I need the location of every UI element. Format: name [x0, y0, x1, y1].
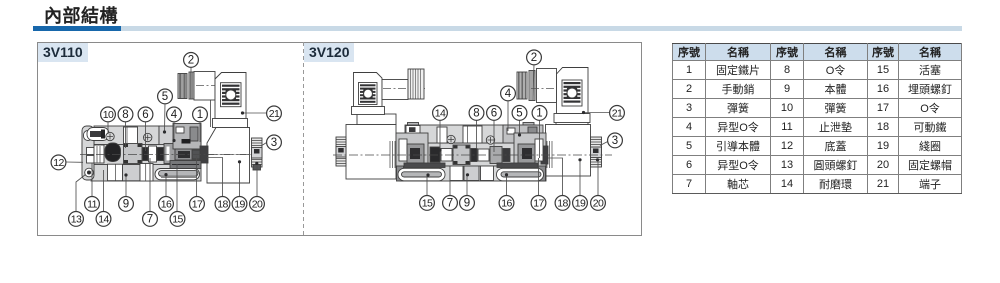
callout 18 (3V110) — [215, 197, 230, 212]
callout 20 (3V110) — [250, 197, 265, 212]
svg-text:19: 19 — [234, 199, 245, 211]
leader 5 — [518, 120, 521, 137]
callout 1 (3V110) — [193, 107, 208, 122]
svg-text:1: 1 — [197, 109, 203, 121]
leader 21 — [241, 111, 267, 114]
bottom port white — [450, 166, 463, 181]
leader 1 — [539, 120, 541, 158]
left solenoid coil — [346, 125, 396, 180]
callout 3 (3V120) — [608, 133, 623, 148]
title underline dark blue — [33, 26, 121, 31]
svg-text:5: 5 — [516, 108, 522, 120]
svg-text:6: 6 — [491, 108, 497, 120]
leader 15 — [176, 164, 178, 211]
screw 6 — [144, 133, 152, 141]
bottom mid block — [464, 166, 479, 181]
valve centerline — [333, 154, 612, 156]
leader 18 — [207, 158, 223, 197]
svg-text:18: 18 — [557, 198, 568, 210]
connector window — [221, 83, 242, 107]
callout 2 (3V110) — [184, 53, 199, 68]
svg-text:18: 18 — [217, 199, 228, 211]
svg-text:7: 7 — [147, 214, 153, 226]
svg-text:17: 17 — [533, 198, 544, 210]
leader 5 — [163, 103, 166, 133]
stem centerline — [196, 85, 224, 87]
callout 19 (3V120) — [573, 196, 588, 211]
leader 7 — [149, 158, 151, 211]
callout 6 (3V110) — [138, 107, 153, 122]
callout 12 (3V110) — [51, 155, 66, 170]
bottom port white 1 — [108, 164, 123, 181]
svg-text:14: 14 — [435, 108, 446, 120]
leader 9 — [124, 173, 127, 196]
svg-text:4: 4 — [505, 88, 512, 100]
pilot channel capsule — [155, 169, 200, 180]
leader 8 — [476, 120, 478, 148]
leader 6 — [493, 120, 495, 152]
manual knob 2 — [517, 71, 535, 101]
right connector window — [562, 80, 582, 106]
svg-text:14: 14 — [98, 214, 109, 226]
right connector 21 body — [557, 68, 589, 114]
right armature stripes — [547, 141, 552, 168]
callout 1 (3V120) — [532, 106, 547, 121]
top tabs — [408, 123, 419, 126]
callout 10 (3V110) — [101, 107, 116, 122]
callout 5 (3V110) — [158, 89, 173, 104]
leader 15 — [426, 173, 429, 195]
end cap notch 1 — [87, 148, 95, 155]
end cap 12 — [82, 126, 94, 180]
callout 3 (3V110) — [267, 135, 282, 150]
svg-text:13: 13 — [71, 214, 82, 226]
right coil foot — [539, 166, 546, 181]
screw left — [447, 135, 455, 143]
top port white — [124, 127, 138, 145]
leader 19 — [578, 158, 581, 195]
leader 21 — [582, 111, 610, 114]
svg-text:17: 17 — [192, 199, 203, 211]
parts table — [672, 43, 962, 194]
svg-text:10: 10 — [103, 109, 114, 121]
leader 17 — [538, 158, 540, 195]
top port white 2 — [437, 127, 447, 143]
mount hole 13 — [85, 168, 94, 177]
svg-text:15: 15 — [172, 214, 183, 226]
leader 2 — [533, 64, 534, 100]
leader 3 — [261, 143, 267, 147]
dashed separator — [303, 42, 304, 236]
leader 1 — [199, 121, 201, 142]
spool details — [430, 145, 510, 165]
right piston housing — [514, 133, 548, 167]
svg-text:4: 4 — [171, 109, 178, 121]
svg-text:7: 7 — [447, 198, 453, 210]
leader 19 — [238, 160, 241, 196]
leader 4 — [507, 100, 509, 131]
svg-text:9: 9 — [464, 198, 470, 210]
callout 18 (3V120) — [555, 196, 570, 211]
end cap notch 2 — [87, 156, 95, 164]
valve centerline — [80, 154, 252, 156]
bottom port white 2 — [140, 164, 153, 182]
svg-text:5: 5 — [162, 91, 168, 103]
coil centerline — [205, 154, 252, 156]
callout 4 (3V120) — [501, 86, 516, 101]
svg-text:1: 1 — [536, 108, 542, 120]
svg-text:6: 6 — [142, 109, 148, 121]
callout 17 (3V120) — [531, 196, 546, 211]
svg-text:19: 19 — [575, 198, 586, 210]
callout 2 (3V120) — [527, 50, 542, 65]
right armature bar — [497, 163, 538, 168]
leader 4 — [172, 121, 175, 142]
svg-text:2: 2 — [531, 52, 537, 64]
leader 2 — [190, 67, 192, 99]
callout 21 (3V110) — [267, 106, 282, 121]
callout 5 (3V120) — [512, 106, 527, 121]
leader 7 — [449, 170, 451, 195]
left armature stripes — [390, 141, 395, 168]
left armature bar — [404, 163, 445, 168]
left pilot slot — [406, 126, 420, 134]
callout 16 (3V110) — [159, 197, 174, 212]
right capsule channel — [497, 168, 544, 181]
panel label 3V120 — [304, 43, 354, 62]
end cap slot — [84, 131, 93, 141]
solenoid coil body — [207, 128, 250, 184]
manual pin 10 capsule — [87, 128, 109, 141]
right end nut — [591, 137, 602, 167]
connector 21 body — [215, 73, 246, 119]
spool seal blob 11 — [105, 143, 121, 162]
bottom mid block 9 — [123, 165, 141, 181]
callout 14 (3V120) — [433, 106, 448, 121]
svg-text:3: 3 — [271, 137, 277, 149]
knob stem housing — [194, 72, 215, 101]
callout 20 (3V120) — [591, 196, 606, 211]
body top plate — [405, 125, 536, 143]
body top plate — [94, 126, 159, 145]
leader 16 — [164, 173, 167, 196]
fixing nut 20 — [252, 138, 263, 170]
callout 8 (3V120) — [469, 106, 484, 121]
svg-text:21: 21 — [269, 108, 280, 120]
spool dark seal 2 — [143, 148, 149, 161]
svg-text:16: 16 — [501, 198, 512, 210]
screw right — [486, 136, 494, 144]
manual knob 2 — [178, 72, 194, 99]
svg-text:11: 11 — [87, 199, 97, 211]
callout 21 (3V120) — [610, 106, 625, 121]
top port white — [463, 126, 482, 143]
left coil foot — [397, 166, 404, 181]
callout 17 (3V110) — [190, 197, 205, 212]
svg-text:12: 12 — [53, 157, 64, 169]
callout 11 (3V110) — [85, 197, 100, 212]
callout 4 (3V110) — [167, 107, 182, 122]
callout 9 (3V110) — [119, 197, 134, 212]
screw 8 — [106, 132, 114, 140]
left connector stem — [382, 80, 408, 100]
left coil flange — [357, 114, 396, 125]
pilot lower strip — [170, 161, 201, 169]
body mid block — [396, 143, 546, 166]
leader 12 — [66, 161, 83, 163]
callout 19 (3V110) — [232, 197, 247, 212]
svg-text:20: 20 — [252, 199, 263, 211]
callout 6 (3V120) — [487, 106, 502, 121]
right stem centerline — [531, 88, 560, 90]
spool white gap left — [94, 145, 104, 163]
leader 9 — [466, 173, 469, 195]
leader 14 — [103, 170, 105, 211]
leader 10 — [107, 121, 109, 134]
svg-text:3: 3 — [612, 135, 618, 147]
leader 6 — [145, 121, 147, 151]
left cable gland knurl — [408, 69, 424, 99]
leader 16 — [505, 173, 508, 195]
callout 15 (3V120) — [420, 196, 435, 211]
leader 18 — [548, 158, 563, 195]
left capsule channel — [398, 168, 445, 181]
right stem housing — [537, 69, 557, 103]
body bottom plate — [400, 166, 546, 181]
leader 13 — [76, 175, 86, 212]
spool white mid — [149, 146, 157, 162]
svg-text:8: 8 — [122, 109, 128, 121]
svg-text:21: 21 — [612, 108, 623, 120]
leader 20 — [596, 158, 599, 195]
leader 8 — [125, 121, 127, 148]
svg-text:8: 8 — [473, 108, 479, 120]
diagram frame — [37, 42, 642, 236]
callout 7 (3V120) — [443, 196, 458, 211]
panel label 3V110 — [38, 43, 88, 62]
right coil flange — [556, 116, 588, 125]
callout 16 (3V120) — [499, 196, 514, 211]
left stem centerline — [383, 88, 425, 90]
title 內部結構 — [44, 2, 118, 28]
body bottom plate — [91, 165, 201, 182]
leader 3 — [600, 142, 608, 146]
spool dark seal 3 — [157, 148, 164, 161]
left end nut — [336, 137, 346, 166]
leader 17 — [196, 156, 198, 196]
bottom port white 2 — [481, 166, 494, 181]
left piston housing — [396, 133, 428, 167]
pilot lower parts — [175, 149, 202, 160]
piston 15 — [164, 144, 175, 164]
callout 13 (3V110) — [69, 212, 84, 227]
pilot block right — [503, 125, 543, 143]
spool center land — [124, 144, 143, 164]
right solenoid coil — [546, 125, 591, 177]
callout 7 (3V110) — [143, 212, 158, 227]
leader 11 — [91, 163, 93, 196]
title underline light blue — [121, 26, 962, 31]
left connector box — [352, 73, 385, 115]
callout 9 (3V120) — [460, 196, 475, 211]
svg-text:2: 2 — [188, 55, 194, 67]
pilot upper section — [159, 126, 201, 145]
body mid block — [82, 143, 201, 165]
leader 20 — [255, 162, 258, 196]
svg-text:16: 16 — [161, 199, 172, 211]
svg-text:20: 20 — [593, 198, 604, 210]
leader 14 — [438, 120, 441, 152]
callout 15 (3V110) — [170, 212, 185, 227]
svg-text:15: 15 — [422, 198, 433, 210]
callout 14 (3V110) — [96, 212, 111, 227]
pilot body 5 block — [173, 124, 201, 150]
callout 8 (3V110) — [118, 107, 133, 122]
armature interface — [200, 146, 208, 163]
svg-text:9: 9 — [123, 199, 129, 211]
